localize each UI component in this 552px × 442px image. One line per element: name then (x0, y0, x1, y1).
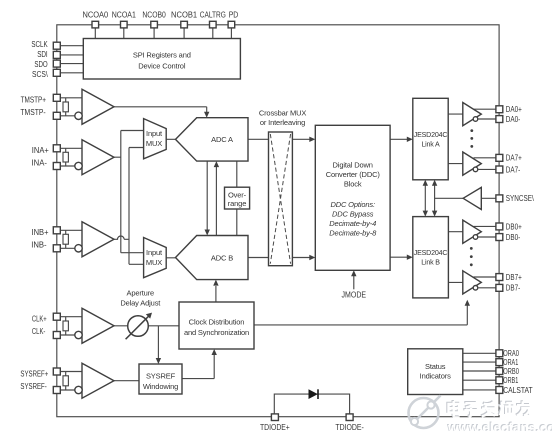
svg-text:SCLK: SCLK (31, 40, 48, 49)
svg-text:PD: PD (229, 11, 239, 20)
svg-text:TDIODE-: TDIODE- (335, 423, 364, 432)
svg-text:range: range (228, 199, 246, 208)
svg-text:ORB0: ORB0 (503, 367, 519, 376)
svg-text:TMSTP+: TMSTP+ (21, 96, 47, 105)
svg-text:Block: Block (344, 180, 362, 189)
svg-text:INA-: INA- (32, 159, 48, 168)
svg-text:NCOA0: NCOA0 (82, 11, 108, 20)
svg-text:Windowing: Windowing (143, 382, 178, 391)
svg-text:INB+: INB+ (32, 228, 49, 237)
svg-text:SPI Registers and: SPI Registers and (133, 51, 191, 60)
svg-text:Indicators: Indicators (420, 372, 451, 381)
svg-text:NCOB1: NCOB1 (171, 11, 198, 20)
svg-text:Input: Input (146, 248, 163, 257)
svg-text:DA0-: DA0- (506, 115, 521, 124)
svg-text:and Synchronization: and Synchronization (184, 328, 249, 337)
svg-text:Status: Status (425, 362, 446, 371)
svg-text:Delay Adjust: Delay Adjust (120, 299, 161, 308)
svg-text:DA7+: DA7+ (506, 154, 522, 163)
svg-text:ADC A: ADC A (211, 135, 233, 144)
svg-text:CALSTAT: CALSTAT (503, 386, 532, 395)
svg-text:ORB1: ORB1 (503, 376, 518, 385)
svg-text:INB-: INB- (31, 241, 47, 250)
svg-text:DA7-: DA7- (506, 165, 521, 174)
svg-text:TDIODE+: TDIODE+ (260, 423, 290, 432)
svg-text:Input: Input (146, 129, 163, 138)
svg-text:Clock Distribution: Clock Distribution (189, 318, 245, 327)
svg-text:DB7-: DB7- (506, 284, 521, 293)
svg-text:or Interleaving: or Interleaving (260, 118, 305, 127)
svg-text:DA0+: DA0+ (506, 105, 522, 114)
svg-text:Link B: Link B (421, 258, 440, 266)
svg-text:CLK+: CLK+ (32, 315, 47, 324)
svg-text:DDC Bypass: DDC Bypass (332, 210, 374, 219)
svg-text:SDI: SDI (37, 50, 48, 59)
svg-text:DB0-: DB0- (506, 233, 521, 242)
svg-text:Aperture: Aperture (127, 289, 155, 298)
svg-text:SDO: SDO (34, 60, 47, 69)
svg-text:Digital Down: Digital Down (333, 161, 373, 170)
svg-text:JESD204C: JESD204C (414, 131, 448, 139)
svg-text:SCS\: SCS\ (32, 70, 48, 79)
svg-text:Crossbar MUX: Crossbar MUX (259, 109, 307, 118)
svg-text:DB0+: DB0+ (506, 222, 522, 231)
svg-text:DB7+: DB7+ (506, 273, 522, 282)
svg-text:NCOA1: NCOA1 (112, 11, 137, 20)
svg-text:Link A: Link A (421, 140, 440, 148)
svg-text:ORA0: ORA0 (503, 349, 519, 358)
svg-text:MUX: MUX (146, 139, 162, 148)
svg-text:SYSREF: SYSREF (146, 372, 176, 381)
svg-text:Decimate-by-8: Decimate-by-8 (329, 229, 377, 238)
svg-text:NCOB0: NCOB0 (142, 11, 166, 20)
svg-text:Device Control: Device Control (138, 62, 186, 71)
svg-text:ADC B: ADC B (211, 254, 233, 263)
svg-text:CALTRG: CALTRG (200, 11, 226, 20)
svg-text:SYNCSE\: SYNCSE\ (506, 194, 535, 203)
svg-text:CLK-: CLK- (32, 327, 46, 336)
svg-text:TMSTP-: TMSTP- (20, 108, 46, 117)
svg-text:www.elecfans.com: www.elecfans.com (447, 420, 552, 435)
svg-text:MUX: MUX (146, 258, 162, 267)
svg-text:ORA1: ORA1 (503, 358, 518, 367)
svg-text:SYSREF-: SYSREF- (20, 382, 47, 391)
svg-text:DDC Options:: DDC Options: (330, 200, 375, 209)
svg-text:JMODE: JMODE (342, 290, 367, 299)
svg-text:INA+: INA+ (32, 146, 49, 155)
svg-text:JESD204C: JESD204C (414, 249, 448, 257)
svg-text:Converter (DDC): Converter (DDC) (326, 170, 381, 179)
svg-text:Decimate-by-4: Decimate-by-4 (329, 219, 376, 228)
svg-text:SYSREF+: SYSREF+ (20, 369, 48, 378)
